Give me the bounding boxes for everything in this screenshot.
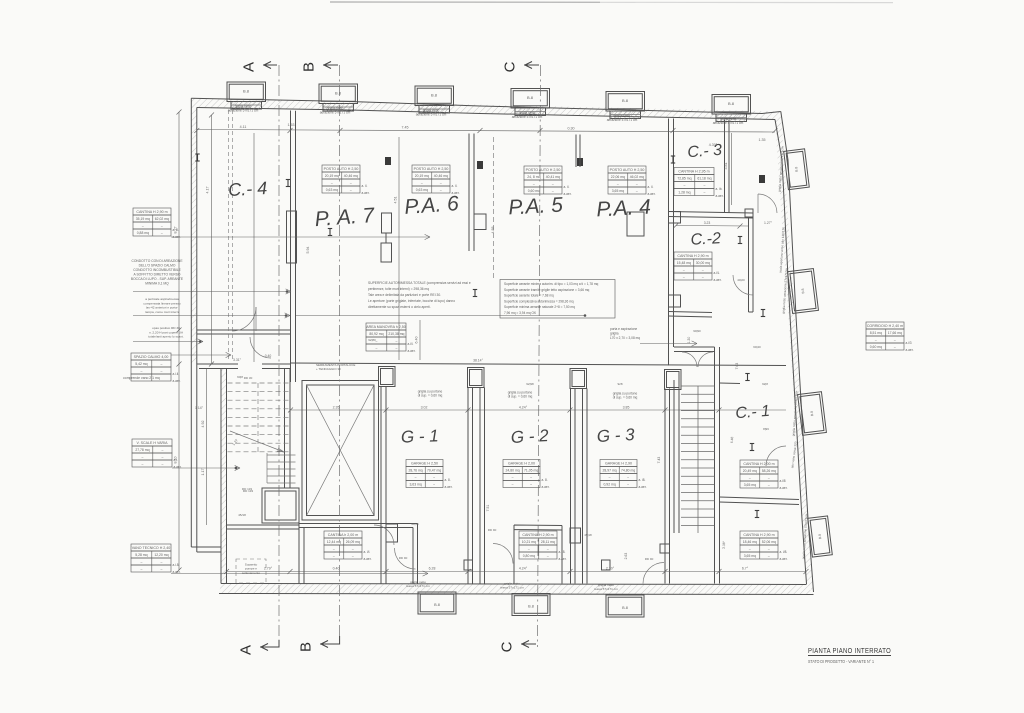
light-well box right 2 <box>788 269 819 314</box>
svg-text:–: – <box>636 182 638 186</box>
svg-text:B.8: B.8 <box>801 288 806 294</box>
svg-text:–: – <box>350 181 352 185</box>
svg-text:74,80 mq: 74,80 mq <box>621 469 635 473</box>
svg-text:20,19 mq: 20,19 mq <box>415 174 429 178</box>
svg-text:–: – <box>528 547 530 551</box>
wall below TL stairwell <box>227 525 300 529</box>
svg-text:–: – <box>433 483 435 487</box>
wall stub PA6/PA5 <box>468 134 470 252</box>
svg-text:3.23: 3.23 <box>704 221 711 225</box>
table CORRIDOIO right <box>866 322 904 329</box>
table POSTO AUTO PA5 <box>524 166 562 173</box>
svg-text:teava 57x171 cm: teava 57x171 cm <box>500 586 524 590</box>
svg-text:28,11 mq: 28,11 mq <box>541 540 555 544</box>
svg-text:a.aer.: a.aer. <box>559 557 567 561</box>
svg-text:CANTINA H 2,00 m: CANTINA H 2,00 m <box>743 462 774 466</box>
svg-text:asc vano corsa 120: asc vano corsa 120 <box>790 441 798 468</box>
svg-text:7,96 mq = 3,94 mq OK: 7,96 mq = 3,94 mq OK <box>504 311 537 315</box>
svg-text:5,28 mq: 5,28 mq <box>135 553 147 557</box>
svg-text:7.63: 7.63 <box>735 363 739 370</box>
svg-text:G - 1: G - 1 <box>401 426 439 446</box>
svg-text:CANTINA H 2,90 m: CANTINA H 2,90 m <box>136 210 167 214</box>
svg-text:di sup. = 0,60 mq: di sup. = 0,60 mq <box>613 396 638 400</box>
svg-text:3,65 mq: 3,65 mq <box>612 189 624 193</box>
wall top exterior outer <box>191 98 781 113</box>
svg-text:teava 57x171 cm: teava 57x171 cm <box>406 584 430 588</box>
svg-text:B.8: B.8 <box>434 603 440 607</box>
svg-text:+ TENDAGGIO 30: + TENDAGGIO 30 <box>316 367 341 371</box>
table CANTINA C-2 <box>674 252 712 259</box>
svg-text:4.92: 4.92 <box>201 421 205 428</box>
svg-text:–: – <box>161 462 163 466</box>
light-well box right 1 <box>784 149 810 190</box>
table CANTINA below G-2 <box>519 531 557 538</box>
svg-text:a.aer.: a.aer. <box>714 278 722 282</box>
svg-text:3,63 mq: 3,63 mq <box>409 483 421 487</box>
svg-text:a.aer.: a.aer. <box>174 465 182 469</box>
svg-text:GARAGE H 2,90: GARAGE H 2,90 <box>605 462 632 466</box>
svg-text:–: – <box>749 476 751 480</box>
svg-text:5.94: 5.94 <box>306 247 310 254</box>
cantina room below G-2 walls <box>514 525 562 584</box>
svg-text:1.27°: 1.27° <box>764 221 773 225</box>
svg-text:0,60 mq: 0,60 mq <box>870 345 882 349</box>
wall C-1 north partial <box>720 382 741 385</box>
svg-text:a.aer.: a.aer. <box>716 194 724 198</box>
svg-text:a.aer.: a.aer. <box>780 486 788 490</box>
svg-text:928: 928 <box>617 382 622 386</box>
svg-text:RD 90: RD 90 <box>399 556 408 560</box>
wall bottom exterior <box>221 584 807 585</box>
garage door arcs bottom <box>493 544 513 564</box>
svg-text:B.8: B.8 <box>528 605 534 609</box>
svg-text:–: – <box>160 362 162 366</box>
svg-text:CANTINA h 2,00 m: CANTINA h 2,00 m <box>328 533 359 537</box>
svg-text:46,02 mq: 46,02 mq <box>630 175 644 179</box>
svg-text:0.30: 0.30 <box>568 127 575 131</box>
leader line porta aspirazione <box>640 343 697 345</box>
svg-text:B.8: B.8 <box>431 93 438 98</box>
table CANTINA C-1 <box>740 460 778 467</box>
svg-text:1.17: 1.17 <box>201 469 205 476</box>
column black square <box>759 175 765 183</box>
svg-text:92|8: 92|8 <box>762 382 768 386</box>
svg-text:P.A. 4: P.A. 4 <box>596 196 652 222</box>
svg-text:6.7°: 6.7° <box>742 567 749 571</box>
svg-text:–: – <box>140 567 142 571</box>
svg-text:0,88 mq: 0,88 mq <box>137 231 149 235</box>
table GARAGE G-1 <box>406 460 443 467</box>
svg-text:porta e aspirazione: porta e aspirazione <box>610 327 637 331</box>
dim line left vertical <box>211 115 213 364</box>
duct rect pair PA7/PA6 <box>382 213 392 233</box>
stair treads bottom-right <box>681 385 715 387</box>
svg-text:a. il.: a. il. <box>362 184 368 188</box>
svg-text:comprende vano 2,1 mq: comprende vano 2,1 mq <box>123 376 160 380</box>
svg-text:–: – <box>161 231 163 235</box>
svg-text:a.aer.: a.aer. <box>452 191 460 195</box>
svg-text:40,46 mq: 40,46 mq <box>344 174 358 178</box>
svg-text:C: C <box>499 641 516 652</box>
svg-text:a. il.: a. il. <box>452 184 458 188</box>
svg-text:CONDOTTO INCOMBUSTIBILE: CONDOTTO INCOMBUSTIBILE <box>133 268 181 272</box>
svg-text:–: – <box>161 455 163 459</box>
svg-text:17,66 mq: 17,66 mq <box>888 331 902 335</box>
column I marker <box>745 374 749 381</box>
wall stub PA5/PA4 <box>575 135 577 168</box>
light-well box top 5 <box>606 92 645 112</box>
svg-text:P.A. 5: P.A. 5 <box>508 194 564 220</box>
door arc bottom-left garage zone <box>374 525 394 545</box>
svg-text:26,09 mq: 26,09 mq <box>346 540 360 544</box>
svg-text:aerazione 57x171 cm: aerazione 57x171 cm <box>512 115 543 119</box>
svg-text:–: – <box>547 554 549 558</box>
svg-text:12,20 mq: 12,20 mq <box>154 553 168 557</box>
svg-text:C.- 3: C.- 3 <box>687 142 723 161</box>
svg-text:aerazione 57x171 cm: aerazione 57x171 cm <box>713 121 744 125</box>
svg-text:P.A. 6: P.A. 6 <box>404 192 460 219</box>
svg-text:A SOFFITTO DIRETTO VERSO: A SOFFITTO DIRETTO VERSO <box>134 273 181 277</box>
svg-text:a.i.8.: a.i.8. <box>173 563 180 567</box>
table CANTINA bottom right <box>740 531 778 538</box>
svg-text:40,46 mq: 40,46 mq <box>434 174 448 178</box>
column I marker <box>195 154 199 161</box>
room below ramp walls <box>299 524 418 584</box>
svg-text:90|55: 90|55 <box>411 522 419 526</box>
leader line left table 1 <box>171 236 430 238</box>
stairwell bottom-right walls <box>673 380 675 533</box>
svg-text:–: – <box>333 547 335 551</box>
svg-text:CORRIDOIO H 2,40 m: CORRIDOIO H 2,40 m <box>867 324 903 328</box>
svg-text:A: A <box>241 62 258 72</box>
double door arcs BR stair entry <box>682 352 697 367</box>
svg-text:V. SCALE H VARIA: V. SCALE H VARIA <box>137 441 169 445</box>
svg-text:B.8: B.8 <box>622 98 629 103</box>
wall C-2 right <box>748 218 750 312</box>
svg-text:–: – <box>352 554 354 558</box>
svg-text:5,42 mq: 5,42 mq <box>135 362 147 366</box>
svg-text:RD 30: RD 30 <box>244 376 253 380</box>
svg-text:–: – <box>140 560 142 564</box>
dim garage top row <box>291 409 787 411</box>
svg-text:3.31°: 3.31° <box>233 358 242 362</box>
svg-text:a.aer.: a.aer. <box>542 485 550 489</box>
svg-text:52,06 mq: 52,06 mq <box>762 540 776 544</box>
svg-text:61,18 mq: 61,18 mq <box>697 177 711 181</box>
small door jamb rects C zone <box>745 209 753 217</box>
ramp X diagonals <box>307 385 375 516</box>
svg-text:–: – <box>768 547 770 551</box>
svg-text:1.53: 1.53 <box>288 123 295 127</box>
svg-text:–: – <box>636 189 638 193</box>
svg-text:210,38 mq: 210,38 mq <box>388 332 404 336</box>
svg-text:pertinenze, tolte muri interni: pertinenze, tolte muri interni) = 298,36… <box>368 287 429 291</box>
svg-text:28,76 mq: 28,76 mq <box>409 469 423 473</box>
svg-text:2.63: 2.63 <box>624 553 628 560</box>
duct rect PA4 <box>627 212 644 236</box>
svg-text:–: – <box>350 188 352 192</box>
dashed vertical mid <box>493 137 495 279</box>
svg-text:–: – <box>768 476 770 480</box>
leader line v scale <box>172 467 240 469</box>
svg-text:38.14°: 38.14° <box>473 359 483 363</box>
svg-text:–: – <box>683 268 685 272</box>
garage G-1/G-2 walls <box>467 388 469 584</box>
svg-text:58,26 mq: 58,26 mq <box>762 469 776 473</box>
svg-text:–: – <box>160 369 162 373</box>
svg-text:0.40: 0.40 <box>265 354 272 358</box>
svg-text:–: – <box>749 547 751 551</box>
svg-text:–: – <box>530 476 532 480</box>
dim C2 horizontals <box>676 225 748 228</box>
svg-text:B.8: B.8 <box>818 534 823 540</box>
svg-text:SPAZIO CALMO 4,00: SPAZIO CALMO 4,00 <box>134 355 169 359</box>
svg-text:–: – <box>768 554 770 558</box>
svg-text:–: – <box>894 338 896 342</box>
svg-text:C.- 1: C.- 1 <box>735 403 771 422</box>
svg-text:a.aer.: a.aer. <box>362 191 370 195</box>
svg-text:–: – <box>894 345 896 349</box>
svg-text:1.30: 1.30 <box>687 337 691 344</box>
svg-text:92|98: 92|98 <box>526 382 534 386</box>
table GARAGE G-3 <box>600 460 637 467</box>
svg-text:a. il.: a. il. <box>648 185 654 189</box>
door arc C-2 <box>733 275 753 295</box>
pillar garage wall 1 <box>379 367 396 387</box>
hatch band left wall <box>191 98 197 364</box>
table CANTINA C-3 <box>674 168 714 175</box>
table SPAZIO CALMO <box>131 353 171 360</box>
wall right exterior slanted inner <box>775 120 807 585</box>
wall garages top <box>291 363 787 366</box>
ramp shaft outer <box>302 381 379 521</box>
svg-text:a. ib.: a. ib. <box>716 187 723 191</box>
svg-text:CANTINA H 2,95 m: CANTINA H 2,95 m <box>678 170 709 174</box>
text block superficie aerante boxed <box>500 280 615 319</box>
hatch band bottom wall <box>219 584 814 595</box>
svg-text:B.8: B.8 <box>728 101 735 106</box>
garage G-1 left wall <box>380 387 382 584</box>
svg-text:–: – <box>140 369 142 373</box>
scan artifact line top <box>330 1 600 3</box>
svg-text:–: – <box>627 476 629 480</box>
wall right exterior slanted outer <box>781 112 814 593</box>
svg-text:a.i/8: a.i/8 <box>780 479 786 483</box>
stair treads top-left upper flight dashed <box>228 382 291 384</box>
svg-text:4.11: 4.11 <box>240 125 247 129</box>
svg-text:griglia: griglia <box>610 331 619 335</box>
svg-text:B.8: B.8 <box>794 166 799 172</box>
svg-text:POSTO AUTO H 2,50: POSTO AUTO H 2,50 <box>610 168 645 172</box>
svg-text:C.-2: C.-2 <box>690 230 721 249</box>
door arc C-4 bottom <box>232 307 256 331</box>
svg-text:3.81: 3.81 <box>724 163 728 170</box>
svg-text:3,65 mq: 3,65 mq <box>744 554 756 558</box>
svg-text:–: – <box>703 184 705 188</box>
svg-text:6.40: 6.40 <box>415 337 419 344</box>
stair treads lower flight solid <box>267 454 296 456</box>
svg-text:RD 90: RD 90 <box>488 528 497 532</box>
wall corridor below C-4 (with door opening) <box>197 364 291 369</box>
table POSTO AUTO PA7 <box>322 165 360 172</box>
svg-text:L70 x 2,70 = 3,08 mq: L70 x 2,70 = 3,08 mq <box>610 336 640 340</box>
svg-text:–: – <box>161 224 163 228</box>
shaft room below stairs <box>262 488 299 523</box>
light-well box bottom 2 <box>512 594 550 616</box>
svg-text:GARAGE H 2,50: GARAGE H 2,50 <box>411 462 438 466</box>
svg-text:BOCCA DI LUPO - SUP. AREANTE: BOCCA DI LUPO - SUP. AREANTE <box>131 277 184 281</box>
svg-text:a.aer.: a.aer. <box>173 379 181 383</box>
svg-text:Superficie complessiva autorim: Superficie complessiva autorimessa = 298… <box>504 299 574 303</box>
hatch band top wall <box>191 98 781 119</box>
svg-text:0,63 mq: 0,63 mq <box>416 188 428 192</box>
svg-text:–: – <box>141 462 143 466</box>
leader line vano tecnico <box>171 573 428 575</box>
svg-text:totale/anti aperto lo scant.: totale/anti aperto lo scant. <box>148 335 184 339</box>
pillar C-zone left 2 <box>669 295 681 307</box>
svg-text:a.i/L: a.i/L <box>714 271 720 275</box>
svg-text:–: – <box>333 554 335 558</box>
column I marker <box>671 156 675 163</box>
svg-text:–: – <box>683 184 685 188</box>
svg-text:a.aer.: a.aer. <box>639 485 647 489</box>
svg-text:8,51 mq: 8,51 mq <box>870 331 882 335</box>
light-well box top 6 <box>712 95 751 115</box>
svg-text:45/18: 45/18 <box>238 513 246 517</box>
svg-text:a. i/l.: a. i/l. <box>364 550 371 554</box>
svg-text:a.i/l.: a.i/l. <box>408 342 414 346</box>
svg-text:a.i/3: a.i/3 <box>906 341 912 345</box>
svg-text:A: A <box>238 645 255 655</box>
dim left lower verticals <box>206 369 208 526</box>
column I marker <box>738 237 742 244</box>
svg-text:rampa, come muri interni: rampa, come muri interni <box>145 310 180 314</box>
light-well box right 4 <box>808 516 833 557</box>
column I marker <box>755 511 759 518</box>
svg-text:B: B <box>301 62 318 72</box>
stairwell top-left walls <box>220 369 222 554</box>
svg-text:B.8: B.8 <box>622 606 628 610</box>
svg-text:a. il.: a. il. <box>564 185 570 189</box>
svg-text:Tale area e delimitata da part: Tale area e delimitata da partizioni e p… <box>368 293 441 297</box>
door arc right wall lower <box>766 446 786 466</box>
pillar garage wall 2 <box>468 368 485 388</box>
svg-text:–: – <box>375 346 377 350</box>
column I marker <box>750 444 754 451</box>
svg-text:–: – <box>702 275 704 279</box>
svg-text:–: – <box>160 567 162 571</box>
svg-text:aerazione 57x171 cm: aerazione 57x171 cm <box>320 111 351 115</box>
svg-text:B.8: B.8 <box>810 411 815 417</box>
svg-text:–: – <box>433 476 435 480</box>
svg-text:a. i8.: a. i8. <box>559 550 566 554</box>
light-well box right 3 <box>798 392 827 436</box>
wall C-2 south <box>669 312 754 318</box>
svg-text:3,65 mq: 3,65 mq <box>744 483 756 487</box>
svg-text:10,21 mq: 10,21 mq <box>522 540 536 544</box>
svg-text:a.aer.: a.aer. <box>408 349 416 353</box>
svg-text:–: – <box>395 346 397 350</box>
svg-text:a.aer.: a.aer. <box>564 192 572 196</box>
svg-text:2.35: 2.35 <box>333 406 340 410</box>
svg-text:70,47 mq: 70,47 mq <box>427 469 441 473</box>
svg-text:RD 90: RD 90 <box>645 557 654 561</box>
svg-text:VANO TECNICO H 2,40: VANO TECNICO H 2,40 <box>132 546 171 550</box>
wall C-4 right <box>290 111 292 383</box>
svg-text:aerazione 57x171 cm: aerazione 57x171 cm <box>416 113 447 117</box>
svg-text:18,46 mq: 18,46 mq <box>743 540 757 544</box>
svg-text:–: – <box>875 338 877 342</box>
column I marker <box>473 290 477 297</box>
svg-text:4.24°: 4.24° <box>519 406 528 410</box>
wall top exterior inner <box>197 108 775 120</box>
svg-text:STATO DI PROGETTO - VARIANTE N: STATO DI PROGETTO - VARIANTE N° 1 <box>808 659 875 664</box>
svg-text:direttamente su spazi esterni: direttamente su spazi esterni o cielo ap… <box>368 305 431 309</box>
svg-text:30,00 mq: 30,00 mq <box>696 261 710 265</box>
svg-text:POSTO AUTO H 2,50: POSTO AUTO H 2,50 <box>414 167 449 171</box>
door arc C-3 corridor <box>758 194 777 213</box>
svg-text:35,19 mq: 35,19 mq <box>136 217 150 221</box>
table AREA MANOVRA <box>366 323 406 330</box>
svg-text:–: – <box>617 182 619 186</box>
table CANTINA left of G-1 lower <box>324 531 362 538</box>
svg-text:POSTO AUTO H 2,50: POSTO AUTO H 2,50 <box>324 167 359 171</box>
svg-text:–: – <box>440 188 442 192</box>
leader line spazio calmo <box>171 354 231 356</box>
svg-text:92|80: 92|80 <box>368 338 376 342</box>
svg-text:22,06 mq: 22,06 mq <box>611 175 625 179</box>
svg-text:0,80 mq: 0,80 mq <box>523 554 535 558</box>
svg-text:–: – <box>415 476 417 480</box>
table VANO TECNICO <box>131 544 171 551</box>
svg-text:15,48 mq: 15,48 mq <box>677 261 691 265</box>
svg-text:27,78 mq: 27,78 mq <box>135 448 149 452</box>
light-well box bottom 1 <box>418 592 456 614</box>
svg-text:–: – <box>141 455 143 459</box>
svg-text:B: B <box>298 642 315 652</box>
svg-text:–: – <box>352 547 354 551</box>
column I marker <box>286 180 290 187</box>
pillar garage wall 3 <box>570 369 587 389</box>
svg-text:–: – <box>702 268 704 272</box>
svg-text:AREA MANOVRA h 2,50: AREA MANOVRA h 2,50 <box>366 325 406 329</box>
svg-text:–: – <box>512 483 514 487</box>
stair diagonal arrow <box>230 431 284 452</box>
svg-text:–: – <box>160 560 162 564</box>
table POSTO AUTO PA4 <box>608 166 646 173</box>
svg-text:–: – <box>421 181 423 185</box>
svg-text:a.i.il.: a.i.il. <box>173 372 180 376</box>
svg-text:40,41 mq: 40,41 mq <box>546 175 560 179</box>
svg-text:Superficie aerante totale = 7,: Superficie aerante totale = 7,68 mq <box>504 294 554 298</box>
leader line paragraph 2 <box>133 315 290 317</box>
svg-text:–: – <box>552 182 554 186</box>
svg-text:–: – <box>547 547 549 551</box>
svg-text:CONDOTTO CON DI AREAZIONE: CONDOTTO CON DI AREAZIONE <box>131 259 183 263</box>
svg-text:PIANTA PIANO INTERRATO: PIANTA PIANO INTERRATO <box>808 646 891 655</box>
svg-text:8.27: 8.27 <box>174 227 178 234</box>
svg-text:8.10: 8.10 <box>174 457 178 464</box>
svg-text:CANTINA H 2,90 m: CANTINA H 2,90 m <box>522 533 553 537</box>
svg-text:4.17: 4.17 <box>206 187 210 194</box>
svg-text:SUPERFICIE AUTORIMESSA TOTALE: SUPERFICIE AUTORIMESSA TOTALE (comprensi… <box>368 281 471 285</box>
door arc corridor <box>250 337 271 358</box>
svg-text:G - 3: G - 3 <box>596 425 635 446</box>
hatch band right wall <box>775 112 814 593</box>
svg-text:0.40: 0.40 <box>333 567 340 571</box>
svg-text:DELL'O SPAZIO CALMO: DELL'O SPAZIO CALMO <box>139 264 176 268</box>
svg-text:RD 133: RD 133 <box>242 487 253 491</box>
